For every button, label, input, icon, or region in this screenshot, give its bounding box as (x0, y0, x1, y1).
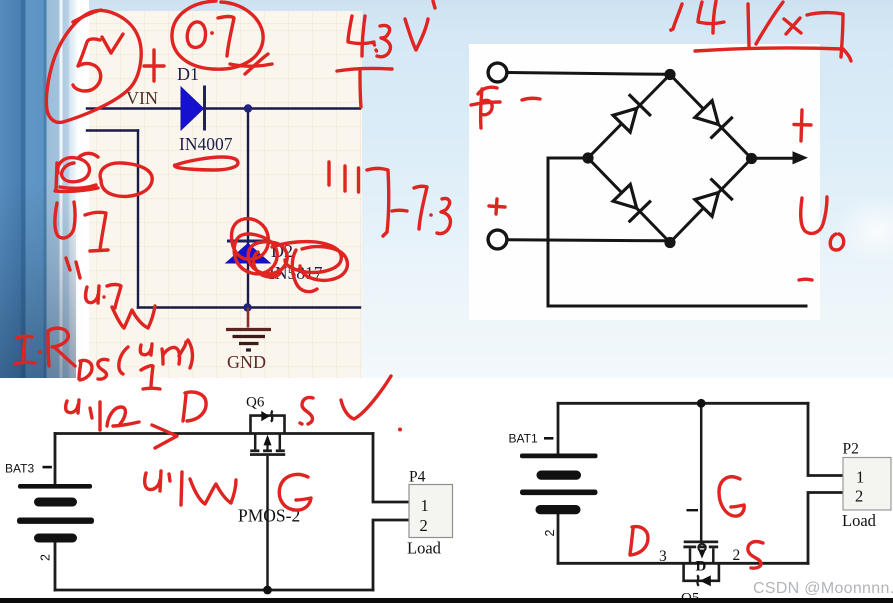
transistor Q5 channel bar mid (698, 546, 706, 549)
connector P2 box (843, 458, 891, 511)
annotation 4.3V digits (348, 1, 435, 57)
wire battery bottom BR (557, 514, 560, 564)
left bar bottom darkening (0, 0, 76, 378)
svg-text:BAT3: BAT3 (5, 462, 34, 476)
annotation 0.7 circle (172, 1, 272, 74)
battery BAT1 plate 1 (520, 454, 598, 459)
svg-text:IN4007: IN4007 (179, 134, 233, 154)
annotation plus right bridge (794, 110, 811, 141)
annotation digit 5 (73, 39, 101, 91)
output arrowhead (793, 151, 809, 164)
annotation D letter BR (630, 527, 648, 555)
wire battery top BL (54, 434, 57, 485)
node gate-bottom junction BL (263, 586, 272, 595)
transistor Q5 pin1 dash (687, 509, 699, 511)
annotation 0.7 digits (187, 17, 234, 57)
transistor Q6 channel bar left (250, 449, 259, 452)
svg-text:2: 2 (420, 516, 428, 535)
svg-text:2: 2 (543, 530, 557, 537)
transistor Q6 body-diode arrow (261, 411, 270, 421)
annotation 0.7W (86, 285, 155, 329)
svg-text:2: 2 (39, 554, 53, 561)
wire bottom input (508, 240, 671, 241)
ground stub (247, 308, 250, 328)
bridge diode bottom-left (611, 182, 651, 222)
annotation scribble tangle (55, 153, 98, 191)
annotation 0.1W lower (145, 471, 236, 505)
transistor Q6 source stub left (254, 434, 257, 450)
connector P4 box (409, 485, 453, 538)
diode D2 cathode bar (227, 240, 269, 243)
ground bar 1 (226, 328, 271, 331)
annotation Uo output (801, 197, 844, 250)
battery BAT1 plate 3 (520, 490, 598, 496)
transistor Q6 substrate arrow (266, 444, 268, 451)
wire top input (508, 73, 667, 75)
transistor Q6 body-diode loop (251, 416, 285, 434)
transistor Q5 source stub left (689, 548, 692, 563)
svg-text:P4: P4 (409, 469, 426, 486)
transistor Q6 channel bar right (276, 449, 285, 452)
wire diamond (588, 75, 752, 243)
svg-text:Load: Load (407, 539, 442, 558)
annotation I.R term (15, 336, 35, 364)
annotation 5 check near Q6 (300, 397, 313, 424)
annotation S letter BR (748, 542, 763, 569)
wire minus path L-shape (548, 158, 808, 306)
transistor Q5 body-diode cathode (697, 575, 699, 586)
wire Q6 gate down (266, 456, 269, 590)
annotation plus after 5V (144, 50, 164, 81)
annotation 0.7 dot (210, 31, 214, 35)
wire right vertical upper BL (373, 434, 409, 503)
transistor Q6 gate plate (250, 453, 285, 456)
wire right vertical upper BR (808, 403, 843, 475)
bridge diode top-right (692, 98, 732, 138)
terminal circle top-left (488, 63, 507, 82)
node right (746, 153, 757, 164)
annotation 1.4V top (673, 1, 783, 46)
bridge diode top-left (611, 94, 651, 134)
wire middle vertical (247, 109, 249, 308)
node bottom (664, 237, 675, 248)
annotation bracket 7 with tail (367, 169, 389, 237)
battery BAT3 plate 3 (17, 518, 94, 524)
annotation minus right bridge (799, 278, 812, 282)
annotation F scribble bridge (471, 87, 500, 128)
annotation checkmark (341, 376, 391, 419)
transistor Q5 gate plate (684, 541, 719, 544)
annotation scribble line right (175, 157, 239, 170)
battery BAT3 pin1 dash (43, 466, 52, 469)
wire bottom rail BL (55, 589, 373, 592)
transistor Q6 channel bar mid (263, 449, 272, 452)
svg-text:Load: Load (842, 511, 877, 530)
svg-text:2: 2 (733, 547, 741, 564)
wire battery top BR (557, 403, 560, 453)
transistor Q5 drain stub right (712, 548, 715, 563)
svg-text:3: 3 (659, 548, 667, 565)
diode D1 body (181, 87, 204, 130)
annotation V after 5 (102, 34, 123, 53)
annotation fraction bar and T stem (337, 68, 392, 107)
annotation plus bottom-left bridge (489, 199, 505, 214)
svg-text:1: 1 (421, 496, 429, 515)
annotation D letter big (183, 392, 206, 421)
left striped blue bar (0, 0, 89, 378)
node junction bottom (243, 303, 251, 311)
annotation G letter BL (279, 474, 311, 510)
ground bar 4 (246, 348, 251, 351)
annotation small cross stroke (392, 209, 407, 213)
svg-text:GND: GND (227, 352, 266, 372)
annotation loops around D2 (232, 219, 348, 292)
annotation 1.4V dot (669, 28, 673, 32)
bridge diode bottom-right (692, 178, 732, 218)
transistor Q6 drain stub right (279, 434, 282, 450)
wire right vertical lower BL (373, 520, 409, 590)
annotation three tally ticks (329, 162, 359, 192)
diode D2 body (226, 244, 270, 264)
transistor Q5 substrate arrowhead down (698, 550, 706, 559)
watermark CSDN (753, 580, 893, 598)
transistor Q5 body-diode arrow (700, 575, 711, 586)
annotation on subscript (140, 342, 186, 364)
diode D1 cathode bar (203, 86, 206, 131)
annotation G letter BR (719, 477, 744, 516)
annotation 5V top crossing stroke (73, 10, 101, 22)
annotation 7.3 dot (429, 213, 433, 217)
wire right vertical lower BR (808, 493, 843, 564)
transistor Q6 substrate arrowhead (264, 435, 272, 446)
wire bottom rail BR (558, 562, 808, 565)
wire Q5 gate down BR (700, 403, 703, 540)
wire left vertical (137, 131, 139, 308)
transistor Q5 body-diode loop (684, 563, 719, 581)
annotation DS subscript (79, 359, 108, 380)
svg-text:P2: P2 (843, 441, 859, 458)
wire stub upper-left (87, 129, 138, 131)
annotation x7 top (784, 13, 843, 57)
annotation I.R dot (38, 350, 42, 354)
transistor Q5 channel bar right (709, 546, 718, 549)
slide background (light blue gradient) (0, 0, 893, 378)
svg-text:VIN: VIN (126, 88, 158, 108)
node left (582, 152, 593, 163)
transistor Q6 body-diode cathode (271, 411, 273, 422)
annotation red dot (398, 428, 402, 432)
annotation minus top-left bridge (522, 98, 540, 100)
node junction top (244, 104, 252, 112)
annotation digit 1 below (141, 366, 160, 389)
annotation R letter (48, 328, 75, 366)
slide right swoosh highlight (830, 175, 893, 285)
node top junction BR (697, 399, 706, 408)
battery BAT1 plate 4 (536, 505, 581, 514)
ground bar 3 (239, 342, 259, 345)
transistor Q5 channel bar left (683, 546, 696, 549)
wire output (752, 157, 796, 160)
annotation scribble oval (100, 163, 152, 196)
annotation U7 left (55, 202, 108, 251)
cream schematic panel with faint grid (89, 11, 362, 378)
battery BAT3 plate 1 (18, 484, 92, 489)
terminal circle bottom-left (488, 230, 507, 249)
wire top rail BL (55, 432, 373, 435)
annotation 0.7W dot (102, 295, 105, 298)
annotation 4.3V colon dots (374, 44, 377, 51)
svg-text:Q6: Q6 (246, 395, 265, 411)
bottom black bar (0, 598, 893, 603)
node top (664, 69, 675, 80)
svg-text:2: 2 (855, 487, 863, 506)
battery BAT3 plate 4 (34, 534, 77, 543)
svg-text:1: 1 (856, 468, 864, 487)
annotation paren open (119, 347, 128, 374)
battery BAT3 plate 2 (34, 498, 77, 507)
white panel (bridge rectifier) (469, 44, 820, 320)
annotation underline top (695, 48, 851, 61)
wire battery bottom BL (54, 542, 57, 590)
annotation greater-than arrow (152, 425, 177, 448)
wire top rail BR (558, 402, 808, 405)
svg-text:D: D (696, 559, 707, 575)
transistor Q5 substrate circle (698, 544, 705, 551)
annotation 0.1ohm (66, 400, 139, 430)
ground bar 2 (233, 335, 266, 338)
svg-text:BAT1: BAT1 (509, 432, 538, 446)
annotation 5V enclosing blob (46, 10, 141, 122)
wire bottom rail (138, 306, 360, 308)
wire top rail VIN (87, 107, 360, 109)
annotation 7.3 (414, 186, 450, 233)
annotation paren close (188, 340, 192, 368)
annotation double ticks (66, 258, 80, 278)
battery BAT1 plate 2 (537, 471, 582, 480)
battery BAT1 pin1 dash (544, 437, 553, 440)
